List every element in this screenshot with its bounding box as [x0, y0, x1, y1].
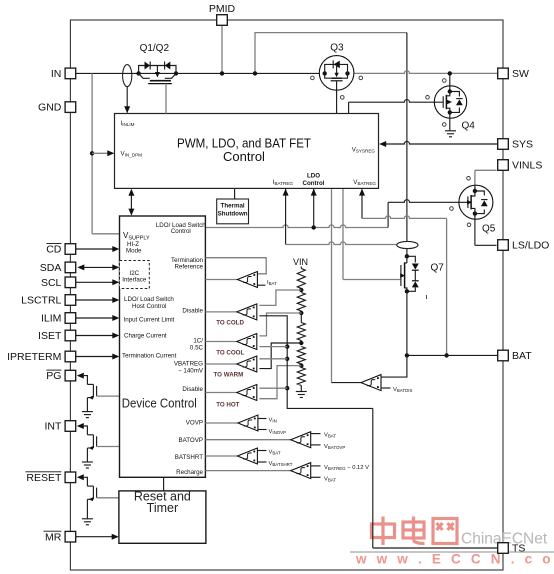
junction TS-TO WARM [285, 357, 289, 361]
svg-text:VOVP: VOVP [186, 420, 203, 427]
transistor Q5 circled PMOS load switch [474, 170, 476, 186]
wire Recharge output [205, 470, 290, 472]
wire IBATREG to current sense ellipse [286, 242, 397, 245]
block Reset and Timer [119, 491, 206, 543]
pin SYS [498, 139, 509, 150]
wire MR to Reset box [76, 536, 112, 538]
svg-text:TS: TS [512, 543, 525, 555]
wire termination reference row [205, 258, 266, 274]
block I2C interface dashed box [120, 261, 150, 289]
pin MR [65, 531, 76, 542]
watermark gray rule [350, 551, 554, 553]
svg-text:1C/: 1C/ [193, 338, 203, 345]
svg-text:Q4: Q4 [462, 121, 476, 132]
IC package outline [70, 20, 503, 570]
svg-text:LDO/ Load Switch: LDO/ Load Switch [124, 296, 174, 303]
wire BATDIS top input [381, 355, 407, 377]
transistor Q4 circled NMOS [434, 86, 466, 118]
svg-text:VBAT: VBAT [269, 450, 281, 456]
svg-text:− 140mV: − 140mV [178, 368, 204, 375]
wire VOVP output [205, 422, 238, 424]
svg-text:BATSHRT: BATSHRT [175, 454, 204, 461]
wire ladder bottom [300, 386, 302, 392]
svg-text:VBATREG: VBATREG [174, 361, 203, 368]
svg-text:VBATREG − 0.12 V: VBATREG − 0.12 V [324, 465, 369, 471]
wire current sense to IINLIM [126, 87, 128, 113]
svg-text:TO HOT: TO HOT [216, 402, 239, 409]
pin RESET [65, 472, 76, 483]
transistor Q3 circled PMOS [319, 56, 354, 91]
junction VIN_DPM tap [90, 151, 94, 155]
resistor R4 [297, 347, 305, 365]
wire VOVP input stubs [258, 418, 267, 420]
comparator U7 BATOVP [291, 432, 311, 448]
svg-text:Recharge: Recharge [176, 469, 203, 476]
svg-text:TO COOL: TO COOL [216, 350, 244, 357]
wire SW line Q3 drain to SW pin [354, 71, 498, 74]
svg-text:ISET: ISET [38, 330, 62, 342]
svg-text:BAT: BAT [512, 350, 532, 362]
resistor R3 [297, 323, 305, 341]
wire VBATREG vertical to BAT line [446, 218, 448, 355]
svg-text:PG: PG [46, 370, 61, 382]
wire IBATREG riser [285, 188, 287, 244]
wire LDO/LS control to Q5 gate [205, 225, 388, 228]
svg-text:VIN: VIN [293, 257, 308, 267]
svg-text:TO COLD: TO COLD [216, 320, 244, 327]
wire termination comparator output [205, 279, 237, 281]
wire IPRETERM arrow [76, 356, 113, 358]
svg-text:VBATOVP: VBATOVP [324, 444, 345, 450]
svg-text:Interface: Interface [122, 276, 147, 283]
svg-text:Shutdown: Shutdown [218, 211, 248, 218]
arrow VSYSREG into PWM box [379, 141, 386, 147]
wire IN riser to top rail at x255 [255, 33, 407, 74]
svg-text:Control: Control [223, 149, 265, 164]
svg-text:Reference: Reference [174, 264, 203, 271]
wire TO HOT output [205, 392, 236, 394]
junction VBATREG/BAT [444, 353, 448, 357]
svg-text:VBAT: VBAT [324, 433, 336, 439]
watermark char wang [433, 519, 457, 544]
ground ladder [296, 391, 307, 393]
svg-text:VIN: VIN [269, 418, 277, 424]
svg-text:SDA: SDA [40, 262, 62, 274]
wire CD arrow [76, 248, 113, 250]
wire PWM-DeviceControl double arrow [130, 192, 132, 212]
svg-text:SYS: SYS [512, 139, 533, 151]
resistor R5 [297, 368, 305, 386]
transistor RESET open-drain FET [77, 474, 84, 480]
svg-text:ILIM: ILIM [41, 313, 61, 325]
svg-text:VINOVP: VINOVP [269, 429, 287, 435]
pin GND [65, 102, 76, 113]
wire Q7 gate net [342, 188, 344, 279]
wire Q4 gate [348, 102, 350, 113]
junction Q4 drain on SW line [448, 71, 452, 75]
svg-text:Input Current Limit: Input Current Limit [124, 317, 175, 324]
pin ISET [65, 330, 76, 341]
svg-text:Disable: Disable [182, 386, 203, 393]
watermark char zhong [372, 517, 395, 546]
svg-text:IBAT: IBAT [267, 280, 277, 286]
block Device Control [120, 216, 206, 477]
svg-text:VINLS: VINLS [512, 160, 542, 172]
wire Q7 drain below sense [406, 249, 408, 257]
wire TS common vertical [259, 316, 372, 409]
block PWM LDO BAT FET Control [115, 114, 379, 189]
wire ISET arrow [76, 335, 113, 337]
wire SDA double arrow [84, 266, 114, 268]
wire BATSHRT output [205, 455, 237, 457]
pin IN [65, 68, 76, 79]
arrow IBATREG into PWM box [283, 189, 289, 196]
pin bubbles Q3 [311, 76, 315, 80]
svg-text:Q1/Q2: Q1/Q2 [140, 43, 170, 54]
svg-text:LSCTRL: LSCTRL [21, 295, 61, 307]
junction ladder tap4 [300, 364, 302, 366]
wire Q7 drain vertical from top rail [406, 33, 408, 242]
wire PMID vertical [221, 26, 223, 74]
svg-text:Q5: Q5 [482, 223, 496, 234]
pin VINLS [498, 160, 509, 171]
junction LDO control arrow [312, 225, 316, 229]
ellipse current sense on IN line [123, 65, 132, 87]
pin LSCTRL [65, 295, 76, 306]
resistor R1 [297, 269, 305, 289]
svg-text:TO WARM: TO WARM [214, 372, 244, 379]
pin SCL [65, 277, 76, 288]
arrow into PWM box IINLIM [124, 106, 130, 113]
wire tap4 to TO HOT [259, 366, 301, 399]
wire ladder top [300, 267, 302, 269]
svg-text:Control: Control [171, 228, 191, 235]
svg-text:SCL: SCL [41, 277, 62, 289]
wire BATOVP stubs [311, 433, 321, 435]
wire BATSHRT stubs [258, 450, 267, 452]
pin CD [65, 244, 76, 255]
wire VSYSREG from SYS pin [386, 141, 499, 144]
wire BATDIS comparator output riser [331, 188, 333, 382]
comparator U6 VOVP [238, 415, 258, 431]
wire BATOVP output [205, 439, 290, 441]
wire SCL arrow [76, 281, 113, 283]
svg-text:PMID: PMID [209, 3, 236, 15]
junction IN riser [253, 71, 257, 75]
junction TS-TO HOT [285, 386, 289, 390]
wire LSCTRL arrow [76, 299, 113, 301]
wire IN sense branch [91, 73, 93, 233]
pin TS [498, 543, 509, 554]
svg-text:Termination Current: Termination Current [122, 353, 177, 360]
wire VBATREG riser+arrow [361, 189, 363, 218]
comparator U3 TO COOL [237, 334, 257, 350]
resistor R2 [297, 293, 305, 312]
svg-text:Thermal: Thermal [221, 203, 245, 210]
wire BATDIS bottom stub [381, 387, 391, 389]
svg-text:Q3: Q3 [330, 43, 344, 54]
wire ladder mid [300, 313, 302, 323]
wire ILIM arrow [76, 317, 113, 319]
wire tap1 to TO COLD [259, 290, 301, 305]
svg-text:Disable: Disable [182, 308, 203, 315]
wire VIN_DPM arrow line [92, 152, 113, 154]
pin ILIM [65, 313, 76, 324]
watermark char dian [403, 517, 425, 544]
wire thermal shutdown link [234, 188, 236, 199]
wire VBATREG horizontal [362, 216, 447, 219]
junction Q7 source/BAT [405, 353, 409, 357]
svg-text:MR: MR [45, 531, 62, 543]
arrow into PWM box VIN_DPM [107, 150, 114, 156]
wire BATDIS output [332, 382, 362, 384]
svg-text:0.5C: 0.5C [190, 345, 204, 352]
pin LS/LDO [498, 240, 509, 251]
svg-text:CD: CD [46, 244, 62, 256]
wire IBAT stub [258, 284, 266, 286]
wire TO WARM output [205, 363, 236, 365]
block Thermal Shutdown [217, 199, 249, 224]
comparator U10 BATDIS [361, 375, 381, 391]
svg-text:LDO: LDO [307, 173, 320, 180]
comparator U2 TO COLD [237, 304, 257, 320]
pin BAT [498, 350, 509, 361]
pin bubbles Q4 [443, 79, 447, 83]
svg-text:VBATDIS: VBATDIS [393, 387, 412, 393]
junction ladder tap1 [300, 289, 302, 291]
wire TO COLD output [205, 311, 236, 313]
junction ladder tap3 [300, 341, 302, 344]
svg-text:Timer: Timer [147, 501, 178, 515]
wire LDO Control arrow riser [313, 188, 315, 227]
comparator U4 TO WARM [237, 356, 257, 372]
svg-text:IN: IN [51, 68, 62, 80]
svg-text:BATOVP: BATOVP [178, 437, 203, 444]
svg-text:Host Control: Host Control [132, 303, 166, 310]
wire IN net: IN pin to Q3 source [76, 72, 320, 74]
wire tap2 to TO COOL [259, 313, 301, 336]
svg-text:Control: Control [303, 180, 325, 187]
svg-text:Mode: Mode [126, 248, 142, 255]
wire VSUPPLY entry [92, 233, 119, 235]
svg-text:LS/LDO: LS/LDO [512, 240, 549, 252]
pin IPRETERM [65, 351, 76, 362]
pin SW [498, 68, 509, 79]
svg-text:Device Control: Device Control [122, 396, 197, 410]
junction PMID/IN [220, 71, 224, 75]
wire DeviceControl-Reset link [163, 477, 165, 491]
svg-text:GND: GND [38, 102, 62, 114]
comparator U1 termination [237, 272, 257, 288]
svg-text:Charge Current: Charge Current [124, 333, 167, 340]
comparator U5 TO HOT [237, 385, 257, 401]
svg-text:Q7: Q7 [431, 263, 445, 274]
arrow VBATREG into PWM box [359, 189, 365, 196]
arrow LDO Control into PWM box [311, 189, 317, 196]
junction TS-TO COOL [285, 344, 289, 348]
svg-text:INT: INT [44, 421, 62, 433]
comparator U8 BATSHRT [237, 448, 257, 464]
svg-text:IPRETERM: IPRETERM [7, 351, 61, 363]
pin PMID [217, 15, 228, 26]
transistor Q1/Q2 dual FET [136, 71, 140, 75]
transistor PG open-drain FET [77, 373, 84, 379]
svg-text:VBAT: VBAT [324, 476, 336, 482]
pin SDA [65, 262, 76, 273]
wire BAT line [407, 354, 498, 356]
pin bubbles Q5 [467, 177, 471, 181]
ellipse BAT current sense [397, 241, 418, 248]
svg-text:RESET: RESET [26, 472, 62, 484]
wire TO COOL output [205, 341, 236, 343]
pin PG [65, 370, 76, 381]
wire Recharge stubs [311, 465, 321, 467]
svg-text:VBATSHRT: VBATSHRT [269, 461, 293, 467]
comparator U9 Recharge [291, 463, 311, 479]
transistor Q7 BAT FET [407, 256, 415, 262]
svg-text:SW: SW [512, 68, 529, 80]
junction ladder tap2 [300, 311, 302, 313]
pin INT [65, 421, 76, 432]
transistor INT open-drain FET [77, 423, 84, 429]
wire tap3 to TO WARM [259, 343, 301, 369]
pin bubble Q7 [426, 295, 428, 299]
